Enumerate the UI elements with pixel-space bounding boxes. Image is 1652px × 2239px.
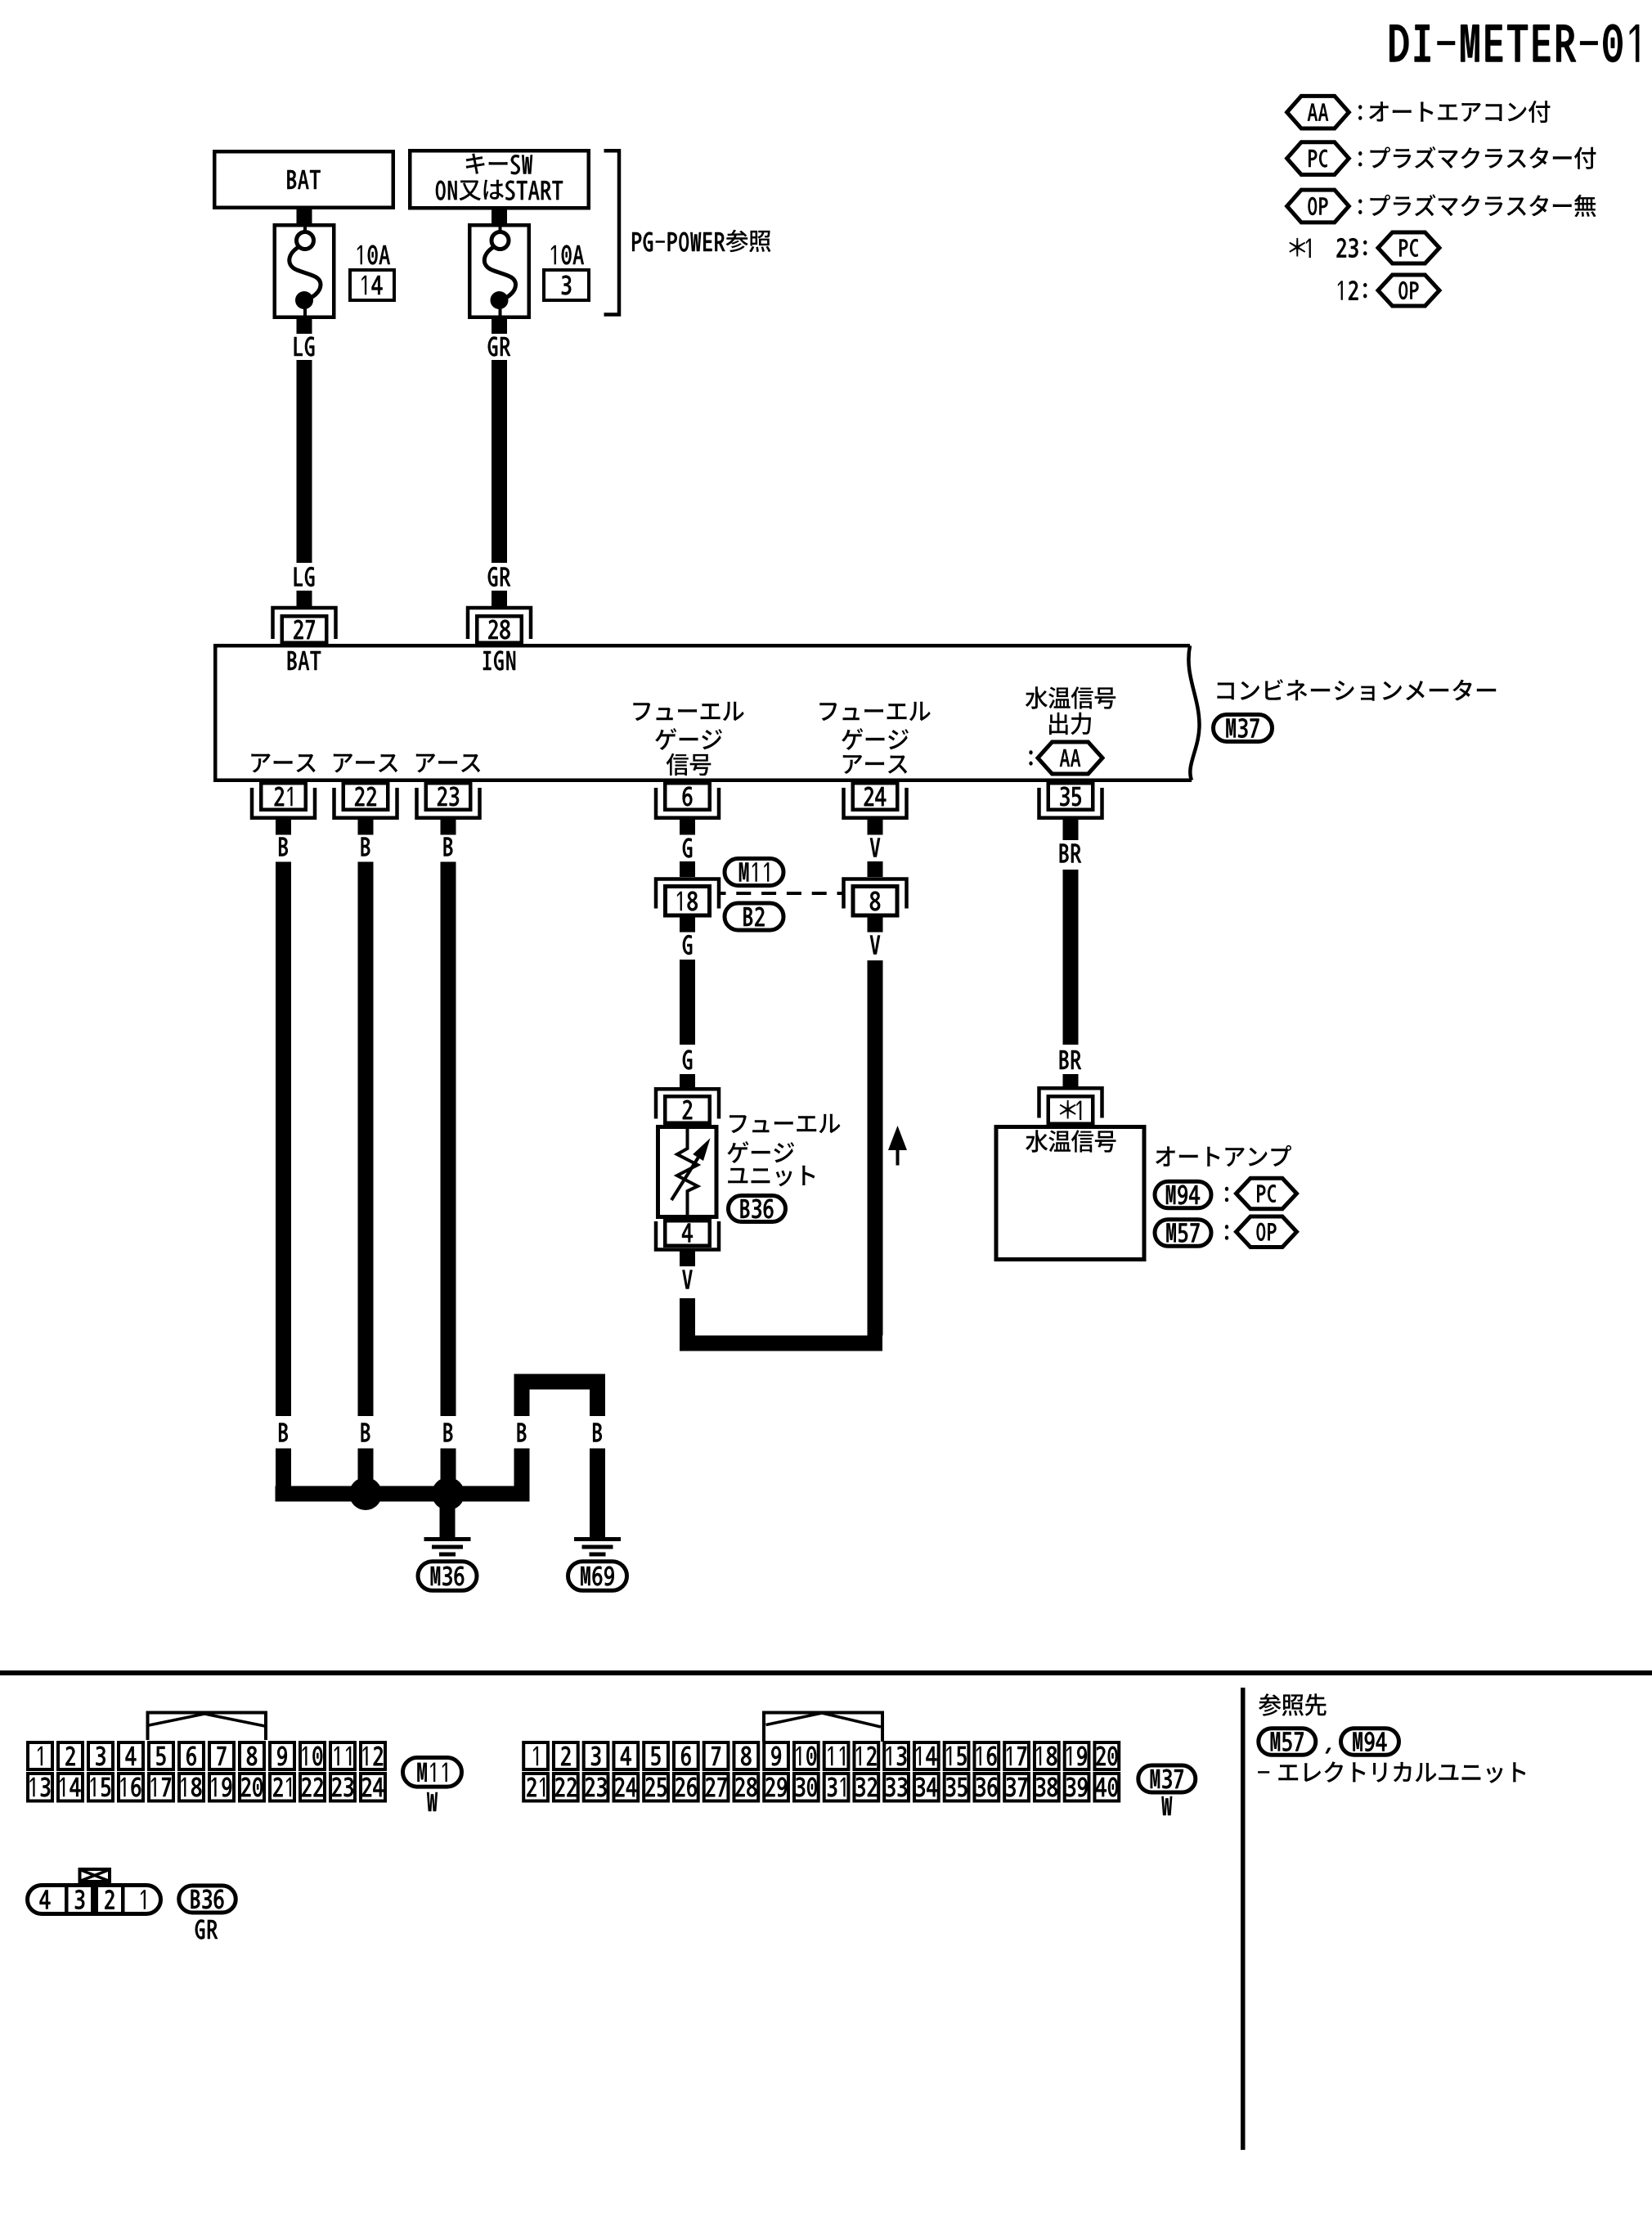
legend text プラズマクラスター付 [1358, 146, 1596, 169]
wire bridge to bus [514, 1449, 530, 1502]
pin label アース x3 [251, 754, 480, 773]
ground symbol M36 [418, 1537, 477, 1590]
connector B36 4pin [28, 1885, 161, 1914]
connector id B36 oval [729, 1196, 786, 1222]
ground bus [276, 1486, 530, 1502]
connector id M11 oval [725, 859, 783, 886]
connector id B36 oval bottom [179, 1886, 236, 1940]
pin label 水温信号出力 :AA [1026, 686, 1116, 774]
fuel gauge unit pin 2 [656, 1089, 719, 1123]
fuel gauge unit pin 4 [656, 1221, 719, 1266]
reference text エレクトリカルユニット [1258, 1761, 1525, 1783]
junction dot A [349, 1477, 382, 1510]
separator line [0, 1670, 1652, 1675]
wire V long [868, 918, 883, 1336]
combination meter box [215, 645, 1199, 780]
reference block 参照先 [1259, 1693, 1327, 1716]
legend note 12: OP [1338, 275, 1439, 306]
wire stub 21 to bus [276, 1449, 291, 1502]
flow arrow up [888, 1126, 907, 1166]
wire GR keySW-to-28 [488, 336, 511, 606]
connector table M37 40pin [523, 1742, 1119, 1801]
wire B from pin at x=447 [358, 837, 374, 1416]
wire stub 22 to bus [358, 1449, 374, 1502]
label フューエルゲージユニット [727, 1114, 840, 1187]
wire bridge to M69 [590, 1449, 605, 1538]
connector pin 21 [252, 783, 315, 834]
connector *1 [1039, 1088, 1102, 1124]
wire BR pin35 [1060, 843, 1082, 1087]
legend note *1 23: PC [1289, 232, 1439, 263]
wire B from pin at x=346.5 [276, 837, 291, 1416]
connector 27 BAT [273, 608, 336, 670]
connector B36 lock tab [80, 1869, 110, 1882]
wire V bottom loop [680, 1336, 882, 1351]
connector pin 23 [417, 783, 480, 834]
wire V pin24 [868, 838, 883, 877]
legend text オートエアコン付 [1358, 101, 1550, 123]
connector id M94 : PC [1155, 1178, 1297, 1209]
reference divider line [1241, 1688, 1246, 2150]
connector table M11 24pin [28, 1742, 385, 1801]
wire B labels lower row [279, 1423, 602, 1442]
wire LG BAT-to-27 [294, 336, 315, 606]
water temp signal box 水温信号 [996, 1127, 1144, 1260]
reference M57 , M94 [1259, 1729, 1399, 1756]
bracket PG-POWER参照 [604, 151, 771, 314]
wire G mid [680, 918, 695, 1088]
junction dot B [432, 1477, 465, 1510]
wire bridge loop [514, 1374, 606, 1417]
connector tab M11 [148, 1713, 267, 1741]
power box BAT [214, 151, 393, 208]
pin label フューエルゲージアース [819, 702, 930, 774]
label オートアンプ [1156, 1145, 1291, 1167]
title DI-METER-01 [1389, 24, 1639, 62]
pin label フューエルゲージ信号 [633, 702, 743, 776]
wire stub M36 [440, 1502, 456, 1538]
label コンビネーションメーター [1217, 679, 1496, 701]
legend text プラズマクラスター無 [1358, 194, 1596, 217]
wire stub 23 to bus [441, 1449, 456, 1502]
connector pin 22 [334, 783, 397, 834]
wire G pin6 [680, 838, 695, 877]
fuse 3 10A [469, 209, 589, 334]
connector tab M37 [764, 1713, 882, 1742]
inline connector 8 [844, 879, 907, 916]
connector 28 IGN [468, 608, 531, 671]
wire B from pin at x=548 [441, 837, 456, 1416]
legend hexagon OP [1287, 190, 1349, 223]
connector pin 6 [656, 783, 719, 834]
connector id M11 oval bottom [403, 1758, 462, 1812]
connector id M57 : OP [1155, 1216, 1297, 1248]
connector id M37 oval bottom [1138, 1765, 1196, 1815]
ground symbol M69 [568, 1537, 627, 1590]
connector id M37 oval [1214, 715, 1273, 742]
legend hexagon AA [1287, 96, 1349, 128]
connector pin 24 [844, 783, 907, 834]
dashed harness link M11/B2 [720, 892, 844, 895]
wire V from pin 4 [680, 1270, 695, 1335]
connector pin 35 [1039, 783, 1102, 840]
inline connector 18 [656, 879, 719, 916]
power box キーSW ON又はSTART [410, 151, 589, 208]
connector id B2 oval [725, 903, 783, 930]
fuel gauge unit body [658, 1127, 717, 1217]
legend hexagon PC [1287, 142, 1349, 175]
variable resistor [671, 1126, 711, 1217]
fuse 14 10A [275, 209, 394, 334]
